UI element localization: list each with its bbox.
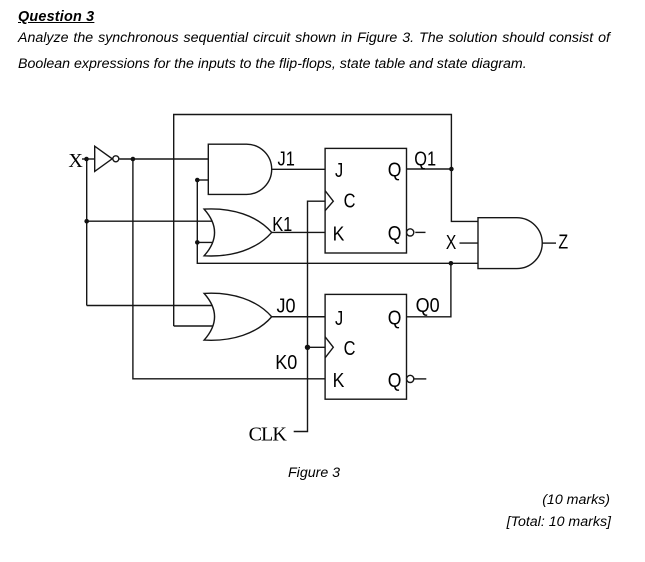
svg-text:Q0: Q0 xyxy=(416,295,440,317)
svg-text:Q1: Q1 xyxy=(414,147,436,170)
svg-text:Q: Q xyxy=(388,306,402,328)
svg-text:Q: Q xyxy=(388,369,402,391)
svg-text:X: X xyxy=(446,231,456,253)
svg-text:J0: J0 xyxy=(277,296,296,318)
svg-text:K0: K0 xyxy=(275,352,297,374)
svg-text:J: J xyxy=(335,159,343,182)
svg-text:K1: K1 xyxy=(272,212,292,235)
svg-text:C: C xyxy=(344,337,356,360)
svg-text:K: K xyxy=(333,369,345,391)
svg-text:Z: Z xyxy=(558,231,568,253)
svg-text:Q: Q xyxy=(388,158,402,180)
svg-text:CLK: CLK xyxy=(249,423,288,445)
svg-text:C: C xyxy=(344,189,356,212)
svg-text:J1: J1 xyxy=(278,147,295,170)
svg-text:Q: Q xyxy=(388,222,402,244)
svg-text:K: K xyxy=(333,222,345,244)
svg-text:X: X xyxy=(68,150,83,172)
svg-text:J: J xyxy=(335,306,343,329)
